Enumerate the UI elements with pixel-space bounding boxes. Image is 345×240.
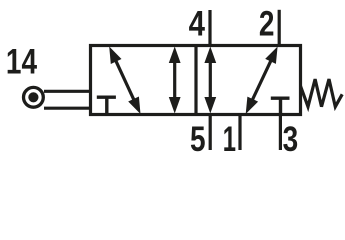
roller actuator circle	[24, 87, 44, 107]
port 4 line	[208, 10, 211, 47]
plunger top line	[44, 90, 92, 93]
svg-text:3: 3	[283, 119, 299, 159]
pilot label 14	[6, 41, 37, 81]
port 3 line	[279, 113, 282, 150]
blocked port 3 (right position T)	[271, 98, 290, 114]
return spring	[301, 79, 343, 107]
valve body	[91, 46, 301, 115]
port label 3	[283, 119, 299, 159]
blocked port 5 (left position T)	[97, 97, 116, 114]
port label 1	[223, 120, 236, 159]
port 2 line	[278, 10, 281, 47]
flow arrow 1-2 (right position, diagonal)	[246, 47, 278, 115]
svg-text:14: 14	[6, 41, 37, 81]
svg-text:2: 2	[259, 3, 275, 43]
svg-text:1: 1	[223, 120, 236, 159]
svg-text:4: 4	[189, 4, 205, 43]
flow arrow 1-4 (left position, diagonal)	[109, 47, 140, 115]
port label 5	[190, 119, 206, 159]
flow arrow 4-5 (right position, vertical)	[204, 47, 216, 114]
plunger bottom line	[44, 107, 92, 110]
port label 2	[259, 3, 275, 43]
port 1 line	[238, 113, 241, 150]
port label 4	[189, 4, 205, 43]
port 5 line	[209, 113, 212, 150]
flow arrow 2-3 (left position, vertical)	[169, 47, 181, 114]
position divider	[194, 46, 197, 115]
svg-text:5: 5	[190, 119, 206, 159]
